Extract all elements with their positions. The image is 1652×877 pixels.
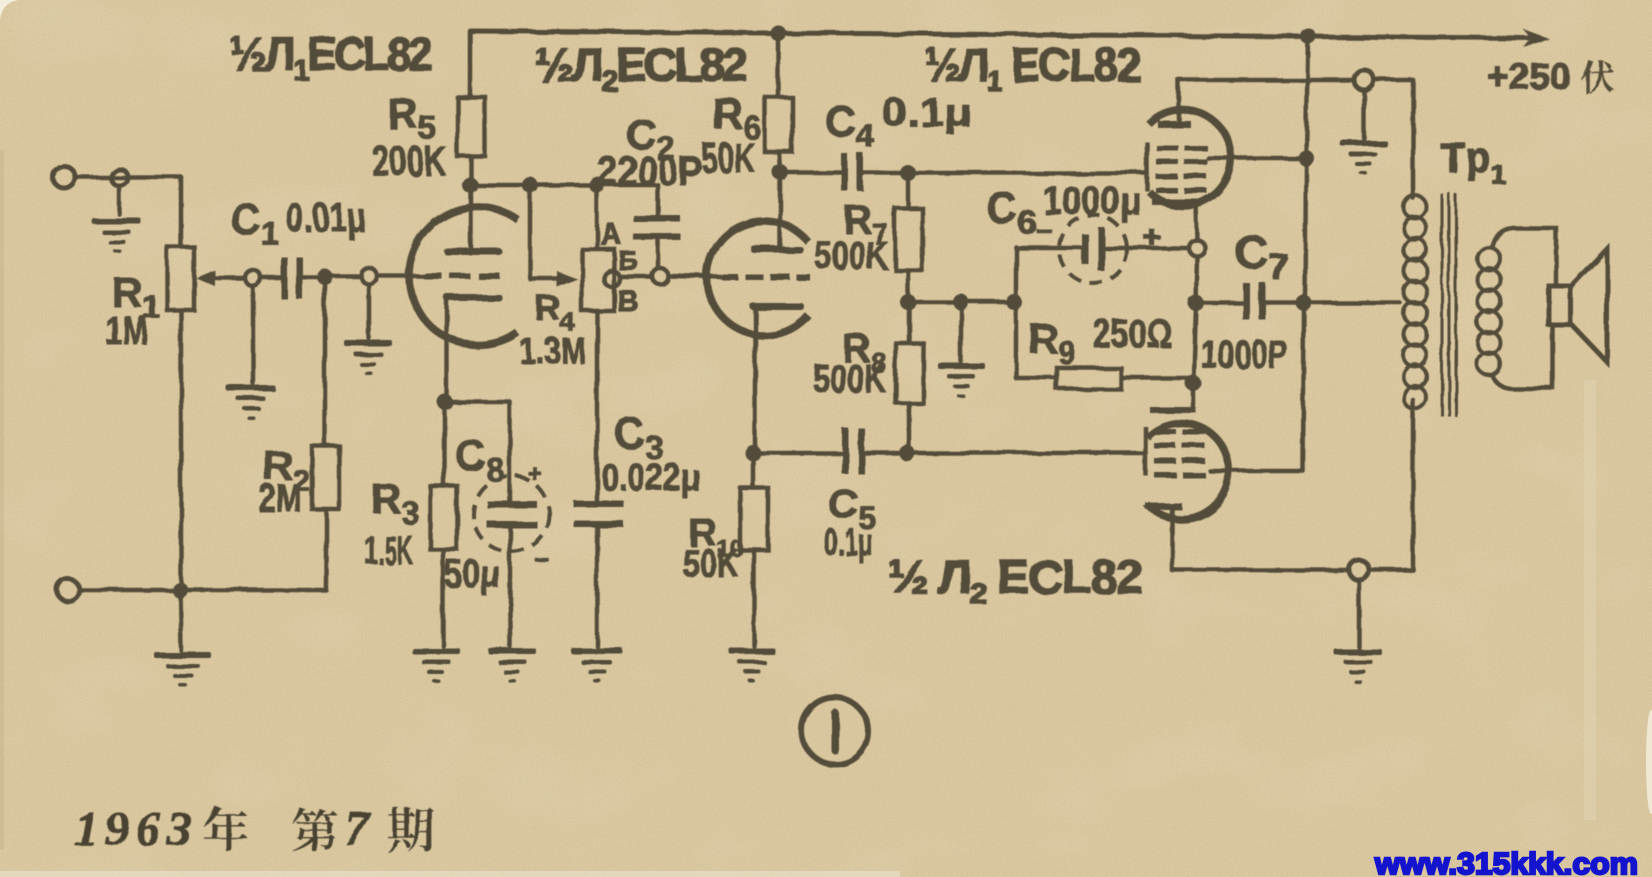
wire to R9 bbox=[1016, 376, 1057, 381]
wire V2 plate lead bbox=[778, 172, 783, 246]
node bias to R9 bbox=[1006, 294, 1022, 310]
terminal input top bbox=[53, 166, 75, 188]
wire node to R10 bbox=[751, 453, 756, 488]
node screen-centertap bbox=[1296, 295, 1312, 311]
capacitor C5 0.1u bbox=[842, 428, 865, 474]
resistor R9 250 bbox=[1057, 368, 1121, 389]
svg-text:–: – bbox=[534, 542, 548, 572]
scan edge right sliver bbox=[1646, 710, 1652, 814]
wire R3 to ground bbox=[441, 549, 446, 646]
wire screen drop 3 bbox=[1303, 303, 1304, 471]
scan crease right bbox=[1584, 380, 1596, 820]
wire R10 to ground bbox=[752, 550, 757, 646]
node bias ground tap bbox=[953, 294, 969, 310]
node R7-R8 bbox=[900, 294, 916, 310]
svg-text:0.1μ: 0.1μ bbox=[824, 522, 873, 564]
wire secondary top lead bbox=[1492, 228, 1556, 286]
wire screen drop 2 bbox=[1305, 158, 1306, 303]
wire C8 to ground bbox=[508, 528, 513, 646]
wire V2 cathode to C5 bbox=[753, 451, 841, 456]
wire bottom terminal ground stub bbox=[1357, 580, 1362, 647]
wire cathode to R3 bbox=[442, 402, 447, 486]
wire wiper ground stub bbox=[251, 286, 256, 383]
resistor R3 1.5K bbox=[430, 486, 457, 549]
node plate-R5 bbox=[462, 177, 478, 193]
node Б junction bbox=[652, 268, 668, 284]
V3 grids (dashed rows) bbox=[1156, 145, 1207, 194]
wire terminal to transformer bottom bbox=[1369, 568, 1413, 573]
R1 wiper arrow bbox=[210, 276, 245, 281]
wire V4 cathode lead bbox=[1191, 383, 1196, 407]
svg-text:200K: 200K bbox=[372, 137, 446, 184]
svg-text:½ Л2 ECL82: ½ Л2 ECL82 bbox=[888, 550, 1142, 610]
node C4-R7 bbox=[900, 165, 916, 181]
resistor R8 500K bbox=[896, 343, 923, 403]
svg-text:50μ: 50μ bbox=[444, 552, 500, 596]
svg-text:250Ω: 250Ω bbox=[1093, 312, 1172, 356]
vacuum tube V1 triode (1/2 L1 ECL82) envelope bbox=[409, 207, 518, 345]
wire to V1 grid bbox=[377, 274, 424, 279]
wire to transformer center tap bbox=[1304, 301, 1400, 306]
wire R8 to C5 node bbox=[907, 403, 912, 453]
wire to R1 top bbox=[179, 177, 184, 247]
R4 wiper arrowhead bbox=[557, 271, 578, 287]
ground C8 bbox=[488, 648, 536, 683]
wire C5 to V4 grid bbox=[866, 451, 1145, 456]
wire to C1 bbox=[261, 276, 281, 281]
wire to main ground bbox=[180, 590, 181, 650]
resistor R5 200K bbox=[457, 97, 485, 156]
svg-text:B: B bbox=[617, 285, 639, 318]
capacitor C8 50u electrolytic bbox=[473, 476, 549, 552]
capacitor C1 0.01u bbox=[281, 257, 303, 299]
wire plate line to C2 bbox=[656, 185, 661, 217]
wire V2 cathode lead bbox=[753, 310, 758, 453]
svg-text:2200P: 2200P bbox=[597, 147, 702, 194]
wire B+ top rail bbox=[470, 31, 1532, 38]
wire R7 to junction bbox=[906, 270, 911, 302]
svg-text:0.1μ: 0.1μ bbox=[882, 91, 972, 135]
wire Б to V2 grid bbox=[668, 276, 722, 277]
wire grid ground stub bbox=[367, 284, 372, 338]
capacitor C6 1000u electrolytic bbox=[1059, 215, 1127, 283]
wire bias loop left bbox=[1014, 247, 1019, 378]
resistor R6 50K bbox=[765, 97, 792, 152]
V4 grids (dashed rows) bbox=[1154, 429, 1205, 478]
terminal input bottom bbox=[57, 579, 79, 601]
V2 plate bbox=[751, 246, 803, 253]
ground C3 bbox=[571, 648, 623, 683]
node V2 cathode junction bbox=[745, 445, 761, 461]
wire R6 to plate node bbox=[779, 152, 780, 172]
transformer Tp1 core bbox=[1442, 193, 1456, 417]
wire bias junction row bbox=[908, 300, 1016, 305]
node R8-C5 bbox=[899, 445, 915, 461]
V2 grid (dashed) bbox=[722, 274, 810, 280]
scan edge bottom light bbox=[0, 871, 900, 877]
label 伏 (volts) bbox=[1581, 60, 1614, 93]
wire rail to R5 bbox=[468, 31, 473, 97]
wire V1 plate lead bbox=[469, 185, 474, 248]
svg-text:1000P: 1000P bbox=[1201, 333, 1288, 377]
scan edge left shade bbox=[0, 150, 4, 850]
node R4 feed bbox=[522, 177, 538, 193]
wire R5 to plate node bbox=[469, 156, 474, 185]
capacitor C4 0.1u bbox=[841, 153, 864, 191]
svg-text:+250: +250 bbox=[1487, 56, 1570, 97]
wire transformer primary bottom lead bbox=[1411, 400, 1416, 570]
node bottom junction bbox=[172, 582, 188, 598]
wire V3 plate to transformer bbox=[1179, 78, 1354, 83]
node C1-R2 bbox=[317, 269, 333, 285]
wire R2 to bottom rail bbox=[180, 509, 326, 590]
ground main input bbox=[154, 652, 211, 687]
wire junction to R8 bbox=[907, 302, 912, 343]
wire R4 top lead bbox=[595, 185, 600, 249]
svg-text:www.315kkk.com: www.315kkk.com bbox=[1374, 846, 1638, 877]
wire node to grid junction bbox=[325, 274, 361, 279]
transformer Tp1 secondary winding bbox=[1478, 248, 1501, 376]
V1 grid (dashed) bbox=[424, 273, 500, 279]
V1 cathode bbox=[444, 294, 502, 301]
svg-text:500K: 500K bbox=[815, 234, 888, 278]
wire secondary bottom lead bbox=[1492, 325, 1553, 388]
wire terminal ground stub bbox=[1362, 90, 1367, 138]
V3 plate bbox=[1158, 121, 1191, 128]
svg-text:½Л2ECL82: ½Л2ECL82 bbox=[535, 38, 747, 98]
wire R9 to right vertical bbox=[1121, 376, 1193, 381]
capacitor C3 0.022u bbox=[574, 501, 624, 528]
wire plate to C4 bbox=[780, 170, 840, 175]
B+ rail arrowhead bbox=[1523, 29, 1549, 48]
wire R4 bottom to C3 bbox=[595, 311, 600, 501]
capacitor C2 2200P bbox=[633, 215, 680, 240]
terminal plate top bbox=[1354, 70, 1374, 90]
svg-text:1M: 1M bbox=[105, 309, 148, 353]
vacuum tube V2 triode (1/2 L2 ECL82) envelope bbox=[707, 221, 808, 335]
svg-text:0.01μ: 0.01μ bbox=[286, 196, 366, 240]
potentiometer R1 1M bbox=[167, 247, 194, 310]
resistor R7 500K bbox=[895, 208, 922, 270]
svg-text:50K: 50K bbox=[683, 542, 739, 586]
vacuum tube V4 pentode (1/2 L2 ECL82) envelope bbox=[1147, 423, 1229, 519]
ground wiper side bbox=[226, 385, 275, 420]
node V1 cathode junction bbox=[437, 394, 453, 410]
speaker bbox=[1549, 249, 1607, 362]
wire V1 cathode lead bbox=[445, 300, 450, 402]
ground plate-top terminal bbox=[1340, 140, 1387, 175]
V1 plate bbox=[444, 248, 502, 255]
wire bias loop right bbox=[1193, 303, 1196, 383]
svg-text:0.022μ: 0.022μ bbox=[601, 457, 700, 499]
wire to C6 bbox=[1016, 246, 1083, 251]
svg-text:1.3M: 1.3M bbox=[519, 330, 586, 371]
wire C4 to V3 grid bbox=[864, 171, 1147, 176]
wire C2 to node B bbox=[656, 240, 661, 268]
transformer Tp1 primary winding bbox=[1404, 196, 1427, 410]
ground R10 bbox=[729, 648, 775, 683]
wire input bottom bbox=[79, 588, 180, 593]
resistor R10 50K bbox=[740, 488, 768, 550]
wire wiper to Б bbox=[620, 275, 652, 280]
wire node to R7 bbox=[906, 173, 911, 208]
svg-text:½Л1 ECL82: ½Л1 ECL82 bbox=[925, 38, 1140, 98]
V4 cathode bbox=[1150, 407, 1196, 413]
vacuum tube V3 pentode (1/2 L1 ECL82) envelope bbox=[1149, 110, 1231, 206]
svg-text:1.5K: 1.5K bbox=[365, 529, 413, 573]
node rail-R6 junction bbox=[770, 25, 786, 41]
V3 grid side rail bbox=[1145, 142, 1150, 191]
svg-text:+: + bbox=[528, 461, 542, 488]
scan corner top-left bbox=[0, 0, 18, 20]
node V3 cathode junction bbox=[1189, 240, 1205, 256]
svg-text:Б: Б bbox=[618, 245, 638, 276]
terminal plate bottom bbox=[1349, 560, 1369, 580]
wire C6 to cathode node bbox=[1106, 246, 1189, 251]
wire V4 screen lead bbox=[1210, 469, 1303, 474]
V4 grid side rail bbox=[1143, 426, 1148, 475]
wire transformer primary top lead bbox=[1411, 80, 1416, 198]
wire bias ground stub bbox=[959, 302, 964, 361]
node R4 wiper out bbox=[604, 271, 620, 287]
wire cathode node down bbox=[1196, 256, 1197, 303]
wire cathode to C8 bbox=[445, 402, 510, 501]
node V2 plate bbox=[772, 164, 788, 180]
ground plate-bottom terminal bbox=[1334, 649, 1382, 684]
wire V4 plate lead bbox=[1170, 510, 1175, 570]
ground input bbox=[92, 218, 141, 253]
wire C3 to ground bbox=[595, 527, 600, 646]
wire V3 plate lead bbox=[1177, 80, 1182, 121]
wire R4 wiper feed bbox=[530, 185, 560, 279]
V3 cathode bbox=[1152, 199, 1198, 205]
wire terminal to transformer top bbox=[1374, 78, 1413, 83]
node R4 top bbox=[589, 177, 605, 193]
ground bias bbox=[938, 363, 985, 398]
svg-text:7: 7 bbox=[345, 801, 372, 856]
wire junction to ground bbox=[117, 185, 122, 214]
svg-text:50K: 50K bbox=[701, 134, 755, 181]
node V4 cathode junction bbox=[1185, 375, 1201, 391]
V2 cathode bbox=[750, 303, 804, 310]
wire node down to R2 bbox=[323, 277, 328, 446]
V4 plate bbox=[1146, 503, 1182, 510]
svg-text:½Л1ECL82: ½Л1ECL82 bbox=[230, 27, 432, 87]
node rail-screen junction bbox=[1300, 28, 1316, 44]
wire V4 plate to transformer bbox=[1172, 568, 1349, 573]
wire V1 plate line bbox=[470, 183, 658, 188]
ground R3 bbox=[412, 648, 460, 683]
wire C7 to screen line bbox=[1266, 301, 1304, 306]
wire input top bbox=[75, 175, 181, 180]
wire V3 cathode lead bbox=[1196, 203, 1197, 240]
wire to C7 bbox=[1196, 301, 1242, 306]
resistor R2 2M bbox=[312, 446, 339, 509]
wire R1 bottom lead bbox=[179, 310, 184, 590]
node input junction bbox=[111, 169, 128, 186]
node C7 left bbox=[1188, 295, 1204, 311]
wire rail to R6 bbox=[776, 33, 781, 97]
capacitor C7 1000P bbox=[1243, 283, 1266, 320]
ground grid side bbox=[344, 340, 392, 375]
svg-text:1000μ: 1000μ bbox=[1043, 179, 1141, 223]
potentiometer R4 1.3M bbox=[582, 249, 614, 311]
figure number (1) bbox=[802, 698, 868, 764]
svg-text:1963: 1963 bbox=[74, 801, 198, 856]
svg-text:2M: 2M bbox=[259, 477, 302, 521]
svg-text:500K: 500K bbox=[813, 357, 886, 401]
wire screen drop 1 bbox=[1306, 36, 1308, 158]
node wiper junction bbox=[245, 270, 261, 286]
node grid junction bbox=[361, 268, 377, 284]
wire C1 to node bbox=[303, 275, 325, 280]
wire V3 screen lead bbox=[1208, 156, 1306, 161]
node V3 screen bbox=[1298, 150, 1314, 166]
